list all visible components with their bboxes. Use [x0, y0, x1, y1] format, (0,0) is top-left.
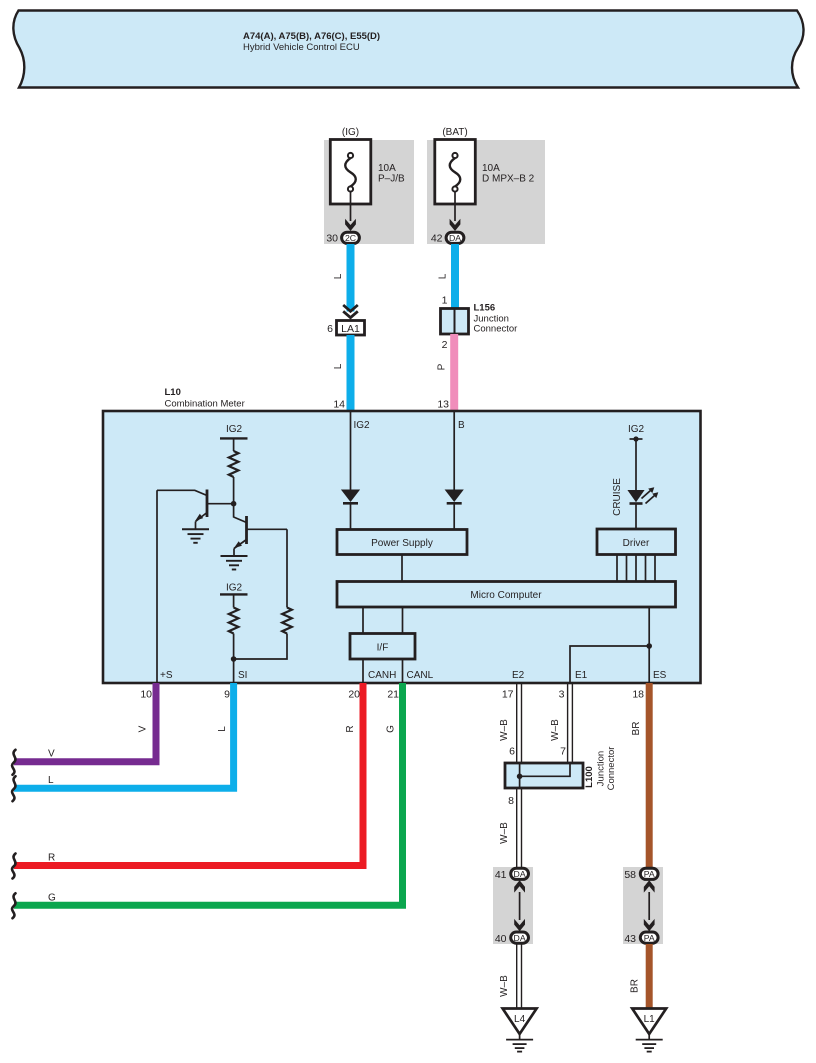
wire R1 to node	[233, 477, 235, 518]
connector DA pin 40	[511, 932, 529, 943]
wire LED to Driver	[635, 504, 637, 530]
wire B to diode	[453, 411, 455, 490]
wire I/F to CANL pin	[402, 659, 404, 683]
break squiggle V	[12, 750, 15, 775]
wire L (cyan) from 2C down	[347, 244, 355, 312]
svg-text:IG2: IG2	[226, 424, 243, 435]
svg-text:9: 9	[224, 689, 230, 701]
svg-text:21: 21	[387, 689, 399, 701]
svg-text:P–J/B: P–J/B	[378, 174, 405, 185]
svg-text:58: 58	[624, 869, 636, 881]
svg-text:Junction: Junction	[596, 751, 607, 786]
svg-text:IG2: IG2	[226, 583, 243, 594]
svg-text:Connector: Connector	[474, 324, 518, 335]
bus Driver to Micro Computer	[616, 555, 618, 582]
svg-text:DA: DA	[514, 933, 526, 943]
wire V (purple) pin 10	[14, 683, 156, 762]
fuse block BAT: gray background	[427, 140, 545, 244]
svg-text:ES: ES	[653, 670, 667, 681]
svg-text:40: 40	[495, 933, 507, 945]
box I/F	[350, 634, 415, 660]
svg-text:E1: E1	[575, 670, 588, 681]
wire fuse IG to connector 2C	[350, 204, 352, 221]
svg-text:Micro Computer: Micro Computer	[470, 590, 542, 601]
svg-text:Hybrid Vehicle Control ECU: Hybrid Vehicle Control ECU	[243, 42, 360, 53]
ECU banner ribbon	[13, 11, 803, 88]
svg-text:R: R	[48, 853, 55, 864]
svg-text:L: L	[438, 273, 449, 279]
svg-text:R: R	[345, 725, 356, 732]
wire G (green) pin 21	[14, 683, 403, 905]
wire IG2 to LED	[635, 439, 637, 490]
break squiggle L	[12, 776, 15, 801]
ground Q1 emitter	[182, 529, 209, 543]
connector 2C pin 30	[342, 232, 360, 243]
svg-text:DA: DA	[449, 233, 461, 243]
svg-text:20: 20	[348, 689, 360, 701]
node SI junction dot	[231, 656, 237, 662]
svg-text:Driver: Driver	[623, 538, 650, 549]
svg-text:10: 10	[140, 689, 152, 701]
svg-text:Combination Meter: Combination Meter	[165, 399, 245, 410]
wire L (cyan) pin 9	[14, 683, 234, 788]
svg-text:Connector: Connector	[606, 747, 617, 791]
ground point L4	[503, 1009, 537, 1035]
svg-text:L4: L4	[514, 1014, 526, 1025]
svg-text:BR: BR	[631, 722, 642, 736]
box Power Supply	[337, 530, 467, 555]
svg-text:CANL: CANL	[407, 670, 434, 681]
transistor Q2	[234, 517, 247, 523]
arrow down	[514, 919, 525, 931]
svg-text:E2: E2	[512, 670, 525, 681]
wire IG2 to diode	[350, 411, 352, 490]
svg-text:L: L	[333, 273, 344, 279]
svg-text:1: 1	[442, 295, 448, 307]
connector DA pin 42	[446, 232, 464, 243]
svg-text:43: 43	[624, 933, 636, 945]
svg-text:LA1: LA1	[341, 323, 360, 335]
svg-text:G: G	[386, 725, 397, 733]
svg-text:30: 30	[326, 233, 338, 245]
box Micro Computer	[337, 582, 676, 608]
resistor R2	[229, 608, 239, 634]
wire between PA connectors	[648, 892, 650, 920]
svg-text:+S: +S	[160, 670, 173, 681]
svg-text:I/F: I/F	[377, 643, 389, 654]
svg-text:42: 42	[431, 233, 443, 245]
fuse IG 10A P-J/B	[330, 140, 371, 205]
svg-text:2: 2	[442, 339, 448, 351]
svg-text:W–B: W–B	[550, 719, 561, 741]
splice double chevron	[343, 305, 358, 311]
svg-text:L156: L156	[474, 303, 496, 314]
node ES junction dot	[646, 643, 652, 649]
svg-text:17: 17	[502, 689, 514, 701]
svg-text:L100: L100	[584, 766, 595, 788]
wire E1 branch	[570, 646, 649, 683]
wire Q2 base to R3	[286, 529, 288, 607]
svg-text:PA: PA	[644, 869, 655, 879]
transistor Q1	[206, 490, 209, 518]
svg-text:(IG): (IG)	[342, 127, 359, 138]
break squiggle G	[12, 893, 15, 918]
svg-text:B: B	[458, 420, 465, 431]
svg-text:P: P	[437, 363, 448, 370]
svg-text:IG2: IG2	[628, 424, 645, 435]
svg-text:BR: BR	[630, 979, 641, 993]
L10 Combination Meter box	[103, 411, 701, 683]
box Driver	[597, 529, 676, 555]
connector PA pin 58	[640, 868, 658, 879]
wire I/F to CANH pin	[362, 659, 364, 683]
svg-text:W–B: W–B	[499, 975, 510, 997]
svg-text:V: V	[138, 725, 149, 732]
svg-text:L: L	[48, 775, 54, 786]
wire R2 to SI pin	[233, 634, 235, 684]
svg-text:13: 13	[437, 399, 449, 411]
svg-text:14: 14	[333, 399, 345, 411]
svg-text:10A: 10A	[378, 163, 396, 174]
wire R3 to node SI	[234, 634, 287, 660]
wire +S vertical	[156, 490, 158, 683]
wire W-B L100 to connector 41	[516, 788, 518, 868]
connector block PA gray	[623, 867, 663, 944]
junction connector L156	[441, 309, 469, 335]
svg-text:V: V	[48, 749, 55, 760]
junction connector L100	[505, 763, 583, 788]
svg-text:3: 3	[559, 689, 565, 701]
svg-text:L: L	[333, 363, 344, 369]
wire W-B connector 40 to ground L4	[516, 944, 518, 1008]
diode D2	[445, 490, 464, 503]
svg-text:G: G	[48, 893, 56, 904]
svg-text:SI: SI	[238, 670, 247, 681]
junction LA1 pin 6	[337, 321, 365, 336]
wire +S to Q1 collector	[157, 490, 207, 495]
svg-text:A74(A), A75(B), A76(C), E55(D): A74(A), A75(B), A76(C), E55(D)	[243, 31, 380, 42]
diode D1	[341, 490, 360, 503]
wire W-B (E1) pin 3 to L100	[567, 683, 569, 763]
connector block DA gray	[493, 867, 533, 944]
wire W-B (E2) pin 17 to L100	[516, 683, 518, 763]
wire between DA connectors	[519, 892, 521, 920]
wire L (cyan) from DA to L156	[451, 244, 459, 309]
LED CRUISE	[627, 490, 644, 502]
svg-text:L10: L10	[165, 387, 181, 398]
fuse block IG: gray background	[324, 140, 414, 244]
svg-text:IG2: IG2	[354, 420, 371, 431]
wire ES from Micro Computer	[648, 607, 650, 683]
break squiggle R	[12, 854, 15, 879]
wire Power Supply to Micro Computer	[401, 555, 403, 582]
resistor R3	[282, 608, 292, 634]
wire BR pin 18 to connector 58	[646, 683, 653, 867]
svg-text:Power Supply: Power Supply	[371, 538, 433, 549]
arrow down	[644, 919, 655, 931]
connector DA pin 41	[511, 868, 529, 879]
wire BR connector 43 to ground L1	[646, 944, 653, 1008]
wire P (pink) from L156 to pin 13	[450, 334, 458, 411]
svg-text:CANH: CANH	[368, 670, 396, 681]
arrow up	[514, 880, 525, 892]
svg-text:2C: 2C	[345, 233, 356, 243]
wire L (cyan) from LA1 to pin 14	[347, 335, 355, 411]
svg-text:8: 8	[508, 795, 514, 807]
svg-text:7: 7	[560, 746, 566, 758]
svg-text:6: 6	[509, 746, 515, 758]
wire diode D2 to Power Supply	[453, 503, 455, 529]
svg-text:L1: L1	[644, 1014, 656, 1025]
connector PA pin 43	[640, 932, 658, 943]
wires Micro Computer to I/F	[362, 607, 364, 634]
resistor R1	[229, 451, 239, 477]
svg-text:PA: PA	[644, 933, 655, 943]
node A junction dot	[231, 501, 237, 507]
svg-text:41: 41	[495, 869, 507, 881]
wire diode D1 to Power Supply	[350, 503, 352, 529]
svg-text:W–B: W–B	[499, 822, 510, 844]
svg-text:18: 18	[632, 689, 644, 701]
svg-text:L: L	[217, 726, 228, 732]
svg-text:DA: DA	[514, 869, 526, 879]
svg-text:6: 6	[327, 323, 333, 335]
fuse BAT 10A D MPX-B 2	[435, 140, 476, 205]
arrow up	[644, 880, 655, 892]
svg-text:CRUISE: CRUISE	[612, 478, 623, 516]
wire R (red) pin 20	[14, 683, 363, 866]
svg-text:(BAT): (BAT)	[442, 127, 467, 138]
svg-text:D MPX–B 2: D MPX–B 2	[482, 174, 535, 185]
wire fuse BAT to connector DA	[454, 204, 456, 221]
ground point L1	[632, 1009, 666, 1035]
svg-text:W–B: W–B	[499, 719, 510, 741]
svg-text:10A: 10A	[482, 163, 500, 174]
ground Q2 emitter	[221, 556, 248, 570]
